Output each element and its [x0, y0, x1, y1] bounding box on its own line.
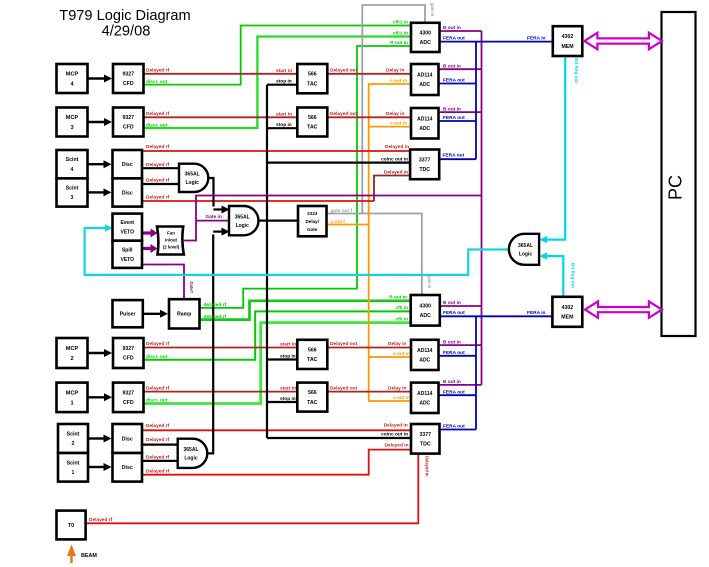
- svg-text:B out in: B out in: [443, 300, 461, 306]
- arrowhead cyan into Event VETO: [105, 224, 113, 231]
- svg-text:gate out f: gate out f: [331, 208, 353, 214]
- svg-text:4302: 4302: [562, 305, 574, 311]
- svg-text:365AL: 365AL: [518, 243, 533, 249]
- svg-text:9327: 9327: [122, 390, 134, 396]
- svg-text:Scint: Scint: [66, 185, 79, 191]
- arrow MCP1 to CFD1: [88, 396, 105, 398]
- svg-text:delayed rf: delayed rf: [204, 302, 227, 308]
- svg-text:B out in: B out in: [443, 64, 461, 70]
- svg-text:stop in: stop in: [280, 354, 296, 360]
- TAC 566 #1: [297, 64, 327, 93]
- wire TAC3 out to AD114#3 in1 (red): [327, 347, 412, 349]
- Event VETO: [113, 214, 143, 241]
- svg-text:delayed rf: delayed rf: [204, 314, 227, 320]
- svg-text:FERA out: FERA out: [443, 36, 465, 42]
- svg-text:a out in: a out in: [390, 121, 407, 127]
- svg-text:discr. out: discr. out: [146, 354, 168, 360]
- svg-text:stop in: stop in: [280, 396, 296, 402]
- svg-text:Pulser: Pulser: [120, 312, 136, 318]
- Spill VETO: [113, 241, 143, 268]
- wire Disc(scint3) delayed out to 3377 TDC1 in3 (red): [142, 200, 374, 202]
- svg-text:R out in: R out in: [390, 40, 408, 46]
- svg-text:4: 4: [71, 167, 74, 173]
- 2323 Delay/Gate: [298, 206, 327, 236]
- wire AD114#2 B out (purple): [439, 111, 482, 113]
- svg-text:a out in: a out in: [393, 395, 410, 401]
- wire AD114#1 FERA out (blue): [439, 83, 477, 85]
- svg-text:ADC: ADC: [419, 126, 430, 132]
- svg-text:Delayed out: Delayed out: [330, 341, 358, 347]
- wire into gate2 in2: [213, 231, 222, 233]
- svg-text:discr. out: discr. out: [146, 79, 168, 85]
- svg-text:Delayed rf: Delayed rf: [146, 437, 170, 443]
- wire CFD4 delayed out to TAC1 start (red): [144, 73, 299, 75]
- svg-text:discr. out: discr. out: [146, 398, 168, 404]
- svg-text:4300: 4300: [419, 30, 431, 36]
- svg-text:B out in: B out in: [443, 107, 461, 113]
- wire 4302 MEM2 up to gate3 in2 (cyan): [546, 256, 563, 297]
- wire TAC2 out to AD114#2 in1 (red): [327, 116, 412, 118]
- arrow MCP3 to CFD3: [88, 121, 105, 123]
- svg-text:a out in: a out in: [390, 78, 407, 84]
- CFD 9327 (MCP2): [113, 338, 144, 368]
- Scint 3: [57, 178, 88, 206]
- svg-text:R out in: R out in: [389, 295, 407, 301]
- svg-text:9327: 9327: [122, 115, 134, 121]
- Disc (scint4): [113, 150, 143, 178]
- svg-text:Delay in: Delay in: [386, 68, 404, 74]
- arrow MCP4 to CFD4: [88, 77, 105, 79]
- svg-text:Bit Reg out: Bit Reg out: [570, 263, 575, 288]
- svg-text:Delayed rf: Delayed rf: [146, 385, 170, 391]
- svg-text:TAC: TAC: [307, 357, 318, 363]
- svg-text:4300: 4300: [419, 303, 431, 309]
- svg-text:MCP: MCP: [66, 346, 79, 352]
- T0 counter: [57, 511, 86, 540]
- svg-text:ADC: ADC: [420, 40, 431, 46]
- svg-text:discr. out: discr. out: [146, 123, 168, 129]
- svg-text:coinc out in: coinc out in: [381, 157, 408, 163]
- Scint 2: [58, 424, 88, 453]
- wire orange branch to AD114#4 in2: [369, 357, 412, 401]
- svg-text:566: 566: [308, 72, 317, 78]
- wire 2323 gate out to 4300 ADC2 top (gray): [362, 214, 422, 297]
- wire 4300 ADC1 FERA out to 4302 MEM1 (blue): [440, 41, 554, 43]
- svg-text:4/29/08: 4/29/08: [102, 24, 151, 40]
- svg-text:(2 level): (2 level): [163, 245, 180, 250]
- svg-text:ADC: ADC: [419, 357, 430, 363]
- svg-text:1: 1: [72, 470, 75, 476]
- arrowhead black into gate2 in1: [222, 206, 230, 214]
- wire Disc(scint1) out to gate4 in2 (black): [142, 460, 179, 462]
- wire AD114#2 FERA out (blue): [439, 120, 477, 122]
- svg-text:FERA out: FERA out: [443, 115, 465, 121]
- svg-text:Disc: Disc: [122, 190, 133, 196]
- wire 365AL gate1 out down to gate2 in1 (black): [207, 178, 214, 207]
- svg-text:Delayed rf: Delayed rf: [146, 195, 170, 201]
- svg-text:Scint: Scint: [67, 431, 80, 437]
- BEAM arrow (orange): [70, 552, 72, 563]
- wire TAC4 out to AD114#4 in1 (red): [327, 391, 412, 393]
- wire B-out bus vertical (purple): [481, 31, 483, 385]
- svg-text:566: 566: [308, 347, 317, 353]
- CFD 9327 (MCP4): [113, 64, 144, 93]
- svg-text:CFD: CFD: [123, 400, 134, 406]
- wire bus to 3377 TDC1 in2 (black): [267, 162, 412, 164]
- CFD 9327 (MCP1): [113, 383, 144, 413]
- svg-text:Delayed out: Delayed out: [330, 385, 358, 391]
- svg-text:start in: start in: [276, 68, 292, 74]
- svg-text:ADC: ADC: [419, 400, 430, 406]
- svg-text:FERA out: FERA out: [443, 389, 465, 395]
- svg-text:4302: 4302: [562, 34, 574, 40]
- svg-text:Disc: Disc: [122, 162, 133, 168]
- svg-text:FERA in: FERA in: [527, 36, 546, 42]
- svg-text:Delay in: Delay in: [388, 385, 406, 391]
- svg-text:FERA out: FERA out: [443, 153, 465, 159]
- MCP 4: [57, 64, 88, 93]
- svg-text:2: 2: [70, 356, 73, 362]
- svg-text:Delayed rf: Delayed rf: [89, 517, 113, 523]
- svg-text:Logic: Logic: [185, 180, 199, 186]
- AD114 ADC #4: [411, 383, 439, 413]
- svg-text:start in: start in: [276, 111, 292, 117]
- wire purple branch to gate2 gate-in: [196, 220, 230, 222]
- Scint 1: [58, 453, 88, 482]
- 4300 ADC #2: [411, 295, 440, 326]
- wire bus to TAC4 stop (black): [267, 401, 298, 403]
- svg-text:9327: 9327: [122, 71, 134, 77]
- svg-text:Event: Event: [120, 220, 134, 226]
- CFD 9327 (MCP3): [113, 108, 144, 137]
- wire bus to TAC2 stop (black): [267, 127, 298, 129]
- svg-text:Fan: Fan: [167, 231, 175, 236]
- arrow MCP2 to CFD2: [88, 352, 105, 354]
- wire CFD2 discr out to 4300 ADC2 in2 (green): [144, 311, 413, 359]
- wire AD114#4 FERA out (blue): [439, 394, 477, 396]
- svg-text:AD114: AD114: [417, 391, 433, 397]
- arrowhead cyan into gate3 in1: [539, 236, 547, 243]
- svg-text:MCP: MCP: [66, 390, 79, 396]
- svg-text:Gate in: Gate in: [206, 214, 222, 220]
- svg-text:Delayed rf: Delayed rf: [146, 68, 170, 74]
- svg-text:VETO: VETO: [120, 257, 134, 263]
- wire Ramp out1 to 4300 ADC1 in3 (green): [200, 46, 413, 308]
- wire FERA bus2 vertical (blue): [475, 316, 477, 429]
- wire orange branch down to AD114#3 in2: [369, 225, 412, 358]
- svg-text:Delayed rf: Delayed rf: [146, 423, 170, 429]
- svg-text:gate in: gate in: [430, 3, 435, 17]
- svg-text:Logic: Logic: [236, 223, 250, 229]
- svg-text:Logic: Logic: [184, 456, 198, 462]
- wire Disc(scint2) out to gate4 in1 (black): [142, 444, 179, 446]
- Scint 4: [57, 150, 88, 178]
- svg-text:FERA out: FERA out: [443, 78, 465, 84]
- wire Disc(scint4) delayed out to 3377 TDC1 in1 (red): [142, 150, 412, 152]
- wire AD114#1 B out (purple): [439, 68, 482, 70]
- wire 365AL gate4 out up to gate2 in2 (black): [207, 235, 214, 454]
- svg-text:Disc: Disc: [122, 436, 133, 442]
- arrow Pulser to Ramp: [143, 313, 160, 315]
- arrow Spill VETO to Fan: [142, 247, 151, 250]
- svg-text:Gate: Gate: [307, 227, 318, 232]
- svg-text:stop in: stop in: [276, 122, 292, 128]
- AD114 ADC #3: [411, 340, 439, 370]
- svg-text:MEM: MEM: [561, 314, 573, 320]
- TAC 566 #3: [297, 340, 327, 369]
- 365AL logic gate2: [229, 206, 258, 235]
- 365AL logic gate3 (mirrored): [509, 234, 539, 265]
- MCP 2: [57, 338, 88, 368]
- svg-text:Delayed rf: Delayed rf: [146, 341, 170, 347]
- svg-text:Delayed in: Delayed in: [385, 442, 409, 448]
- PC link arrow bottom (magenta): [585, 301, 662, 317]
- wire gate3 out to Event VETO (cyan): [85, 228, 511, 275]
- Disc (scint2): [113, 424, 143, 453]
- svg-text:TAC: TAC: [307, 81, 318, 87]
- svg-text:Delayed in: Delayed in: [385, 144, 409, 150]
- svg-text:cf01 in: cf01 in: [393, 20, 408, 26]
- wire 3377 TDC1 FERA out (blue): [439, 158, 476, 160]
- svg-text:B out in: B out in: [443, 25, 461, 31]
- 3377 TDC #1: [410, 150, 439, 180]
- svg-text:Delayed rf: Delayed rf: [146, 162, 170, 168]
- svg-text:Delayed rf: Delayed rf: [146, 455, 170, 461]
- svg-text:Delayed out: Delayed out: [330, 111, 358, 117]
- wire TAC1 out to AD114#1 in1 (red): [327, 73, 412, 75]
- svg-text:3: 3: [70, 125, 73, 131]
- svg-text:3377: 3377: [419, 432, 431, 438]
- svg-text:2323: 2323: [307, 211, 318, 216]
- wire orange branch to AD114#2 in2: [369, 126, 412, 128]
- arrowhead black into gate2 in2: [222, 228, 230, 236]
- wire AD114#3 FERA out (blue): [439, 355, 477, 357]
- svg-text:TAC: TAC: [307, 125, 318, 131]
- svg-text:start in: start in: [280, 342, 296, 348]
- wire AD114#4 B out (purple): [439, 384, 482, 386]
- 4300 ADC #1: [411, 23, 440, 52]
- svg-text:Bit Reg out: Bit Reg out: [574, 58, 579, 83]
- svg-text:BEAM: BEAM: [81, 553, 97, 559]
- svg-text:Delayed rf: Delayed rf: [146, 178, 170, 184]
- svg-text:cf0 in: cf0 in: [395, 305, 408, 311]
- svg-text:a out f: a out f: [331, 219, 346, 225]
- arrow Scint3 to Disc: [88, 191, 104, 193]
- svg-text:Delayed rf: Delayed rf: [146, 469, 170, 475]
- svg-text:TDC: TDC: [420, 441, 431, 447]
- wire Disc(scint4) out to gate1 in1 (black): [142, 167, 180, 169]
- wire bus to TAC1 stop (black): [267, 84, 298, 86]
- svg-text:Ramp: Ramp: [177, 312, 191, 318]
- svg-text:566: 566: [308, 115, 317, 121]
- svg-text:B out in: B out in: [443, 339, 461, 345]
- svg-text:365AL: 365AL: [183, 447, 198, 453]
- Fan In/out: [157, 227, 184, 255]
- svg-text:Delayed in: Delayed in: [384, 422, 408, 428]
- wire 4300 ADC2 FERA out to 4302 MEM2 (blue): [440, 315, 553, 317]
- Disc (scint1): [113, 453, 143, 482]
- svg-text:cf01 in: cf01 in: [393, 31, 408, 37]
- MCP 3: [57, 108, 88, 137]
- wire 4302 MEM1 bit-reg out down to gate3 in1 (cyan): [546, 56, 565, 240]
- svg-text:Scint: Scint: [67, 460, 80, 466]
- arrow Scint2 to Disc: [88, 437, 104, 439]
- wire Disc(scint1) delayed out to 3377 TDC2 in3 (red): [142, 450, 412, 475]
- Ramp: [169, 299, 200, 328]
- wire coincidence bus vertical (black): [266, 85, 268, 438]
- wire 4300 ADC2 B out (purple): [440, 305, 482, 307]
- svg-text:FERA out: FERA out: [443, 424, 465, 430]
- arrow Scint4 to Disc: [88, 163, 104, 165]
- AD114 ADC #2: [411, 108, 439, 139]
- svg-text:CFD: CFD: [123, 125, 134, 131]
- svg-text:In/out: In/out: [165, 238, 177, 243]
- svg-text:3377: 3377: [419, 157, 431, 163]
- wire CFD1 delayed out to TAC4 start (red): [144, 391, 299, 393]
- wire Disc(scint2) delayed out to 3377 TDC2 in1 (red): [142, 429, 412, 431]
- svg-text:Delayed in: Delayed in: [424, 456, 429, 477]
- PC link arrow top (magenta): [584, 33, 662, 49]
- svg-text:a out in: a out in: [393, 351, 410, 357]
- wire gate2 coinc out to 2323 in (black): [259, 220, 299, 222]
- svg-text:FERA out: FERA out: [443, 350, 465, 356]
- arrow Event VETO to Fan: [142, 231, 151, 234]
- svg-text:CFD: CFD: [123, 356, 134, 362]
- MCP 1: [57, 383, 88, 413]
- svg-text:FERA in: FERA in: [527, 310, 546, 316]
- wire FERA bus1 vertical (blue): [475, 42, 477, 160]
- wire CFD1 discr out to 4300 ADC2 in3 (light green): [144, 323, 413, 404]
- svg-text:start in: start in: [280, 386, 296, 392]
- svg-text:Delayed in: Delayed in: [384, 169, 408, 175]
- PC: [662, 12, 696, 336]
- wire CFD4 discr out to 4300 ADC1 in1 (green): [144, 26, 413, 85]
- svg-text:ADC: ADC: [419, 82, 430, 88]
- Disc (scint3): [113, 178, 143, 206]
- arrowhead cyan into gate3 in2: [539, 252, 547, 259]
- svg-text:gate in: gate in: [427, 275, 432, 289]
- svg-text:VETO: VETO: [120, 230, 134, 236]
- svg-text:cf0 in: cf0 in: [395, 316, 408, 322]
- svg-text:2: 2: [72, 441, 75, 447]
- svg-text:1: 1: [70, 400, 73, 406]
- svg-text:Logic: Logic: [519, 252, 533, 258]
- svg-text:AD114: AD114: [417, 348, 433, 354]
- 365AL logic gate1: [179, 164, 208, 192]
- AD114 ADC #1: [411, 64, 439, 95]
- svg-text:566: 566: [308, 390, 317, 396]
- wire Disc(scint3) out to gate1 in2 (black): [142, 183, 180, 185]
- Pulser: [113, 300, 143, 327]
- svg-text:365AL: 365AL: [235, 214, 250, 220]
- svg-text:FERA out: FERA out: [443, 310, 465, 316]
- wire Ramp out2 to 4300 ADC2 in1 (green): [200, 301, 413, 320]
- wire bus to 3377 TDC2 in2 (black): [267, 437, 412, 439]
- svg-text:MCP: MCP: [66, 115, 79, 121]
- svg-text:Delayed rf: Delayed rf: [146, 144, 170, 150]
- svg-text:9327: 9327: [122, 346, 134, 352]
- svg-text:Delayed rf: Delayed rf: [146, 111, 170, 117]
- svg-text:AD114: AD114: [417, 73, 433, 79]
- 4302 MEM #2: [552, 297, 582, 327]
- svg-text:Delay/: Delay/: [305, 219, 319, 224]
- svg-text:MCP: MCP: [66, 71, 79, 77]
- wire CFD2 delayed out to TAC3 start (red): [144, 347, 299, 349]
- 365AL logic gate4: [178, 439, 208, 468]
- wire CFD3 discr out to 4300 ADC1 in2 (green): [144, 37, 413, 129]
- svg-text:Gate?: Gate?: [189, 282, 194, 294]
- svg-text:coinc out in: coinc out in: [381, 431, 408, 437]
- wire CFD3 delayed out to TAC2 start (red): [144, 116, 299, 118]
- TAC 566 #4: [297, 383, 327, 412]
- wire Fan out up and right to B-bus (purple): [184, 196, 482, 241]
- arrow Scint1 to Disc: [88, 466, 104, 468]
- svg-text:T0: T0: [68, 523, 74, 529]
- svg-text:TAC: TAC: [307, 400, 318, 406]
- wire 4300 ADC1 B out (purple): [440, 30, 482, 32]
- svg-text:Delayed out: Delayed out: [330, 68, 358, 74]
- svg-text:ADC: ADC: [420, 313, 431, 319]
- svg-text:MEM: MEM: [561, 44, 573, 50]
- wire T0 delayed out to 3377 TDC2 bottom (red): [86, 454, 419, 523]
- svg-text:365AL: 365AL: [185, 172, 200, 178]
- svg-text:3: 3: [71, 195, 74, 201]
- 3377 TDC #2: [411, 424, 440, 454]
- wire 3377 TDC2 FERA out (blue): [440, 429, 477, 431]
- svg-text:Spill: Spill: [122, 247, 133, 253]
- wire 2323 gate out to 4300 ADC1 top (gray): [327, 5, 426, 214]
- svg-text:Delay in: Delay in: [386, 111, 404, 117]
- svg-text:stop in: stop in: [276, 79, 292, 85]
- wire riser to 3377 TDC1 in3 (maroon): [374, 176, 412, 202]
- 4302 MEM #1: [553, 26, 583, 56]
- svg-text:PC: PC: [666, 175, 686, 200]
- wire AD114#3 B out (purple): [439, 344, 482, 346]
- svg-text:CFD: CFD: [123, 81, 134, 87]
- wire into gate2 in1: [214, 208, 223, 210]
- svg-text:TDC: TDC: [419, 167, 430, 173]
- wire Spill VETO out to Ramp gate (purple): [142, 265, 184, 301]
- svg-text:AD114: AD114: [417, 116, 433, 122]
- TAC 566 #2: [297, 108, 327, 137]
- svg-text:T979 Logic Diagram: T979 Logic Diagram: [59, 8, 190, 24]
- wire bus to TAC3 stop (black): [267, 358, 298, 360]
- svg-text:Disc: Disc: [122, 465, 133, 471]
- wire 2323 delay out to AD114 gate-ins (orange): [327, 84, 413, 225]
- svg-text:B out in: B out in: [443, 379, 461, 385]
- svg-text:Scint: Scint: [66, 157, 79, 163]
- svg-text:Delay in: Delay in: [388, 341, 406, 347]
